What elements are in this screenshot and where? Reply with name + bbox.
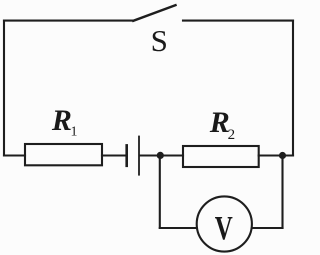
wire: R1 to battery xyxy=(102,154,126,156)
wire: R2 to right vertical xyxy=(259,154,293,156)
wire: top right segment from switch xyxy=(183,20,293,22)
wire: left horizontal to voltmeter xyxy=(160,227,196,229)
wire: left voltmeter drop xyxy=(159,156,161,229)
wire: top left segment to switch xyxy=(4,20,133,22)
voltmeter U1 circle xyxy=(197,196,252,251)
resistor R1 body xyxy=(25,144,102,165)
battery short plate (negative) xyxy=(125,145,128,165)
battery long plate (positive) xyxy=(138,137,140,175)
svg-text:1: 1 xyxy=(71,124,78,139)
svg-text:S: S xyxy=(151,23,168,58)
node B junction dot right xyxy=(279,152,286,159)
wire: right horizontal to voltmeter xyxy=(253,227,283,229)
node A junction dot left xyxy=(157,152,164,159)
svg-text:R: R xyxy=(51,104,72,137)
switch S blade xyxy=(133,5,175,21)
wire: left vertical xyxy=(3,21,5,156)
wire: battery to R2 through node xyxy=(140,154,183,156)
svg-text:2: 2 xyxy=(228,127,236,143)
svg-text:R: R xyxy=(209,106,230,139)
wire: right voltmeter drop xyxy=(281,156,283,229)
wire: middle left to R1 xyxy=(4,154,25,156)
svg-text:V: V xyxy=(215,210,233,247)
wire: right vertical xyxy=(292,21,294,156)
resistor R2 body xyxy=(183,146,259,167)
